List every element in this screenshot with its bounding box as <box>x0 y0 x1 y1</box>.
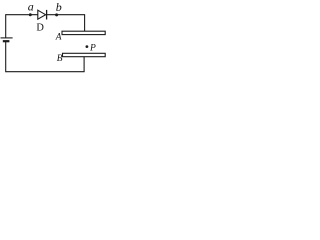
capacitor plate A <box>62 31 105 34</box>
wire: right vertical (top corner down to plate A) <box>84 15 86 32</box>
diode D1 cathode bar <box>46 10 48 20</box>
wire: plate B down to bottom run <box>83 57 85 72</box>
svg-text:D: D <box>36 23 44 34</box>
svg-text:B: B <box>57 54 63 64</box>
background <box>0 0 118 78</box>
svg-text:A: A <box>55 32 62 42</box>
svg-text:P: P <box>89 44 96 54</box>
wire: top run, left segment (corner to diode anode) <box>6 14 38 16</box>
wire: bottom run <box>6 71 85 73</box>
wire: left vertical lower (battery down to bottom corner) <box>5 41 7 72</box>
node b junction dot <box>55 13 58 16</box>
capacitor plate B <box>63 53 106 56</box>
battery long plate (+) <box>1 37 13 39</box>
svg-text:b: b <box>56 0 62 14</box>
svg-text:a: a <box>28 0 34 13</box>
battery short thick plate (-) <box>3 40 10 42</box>
node a junction dot <box>29 13 32 16</box>
point P dot <box>86 45 89 48</box>
wire: top run, right segment (diode cathode to top-right corner) <box>47 14 85 16</box>
diode D1 triangle (anode) <box>38 10 46 19</box>
wire: left vertical upper (corner down to battery) <box>5 14 7 38</box>
